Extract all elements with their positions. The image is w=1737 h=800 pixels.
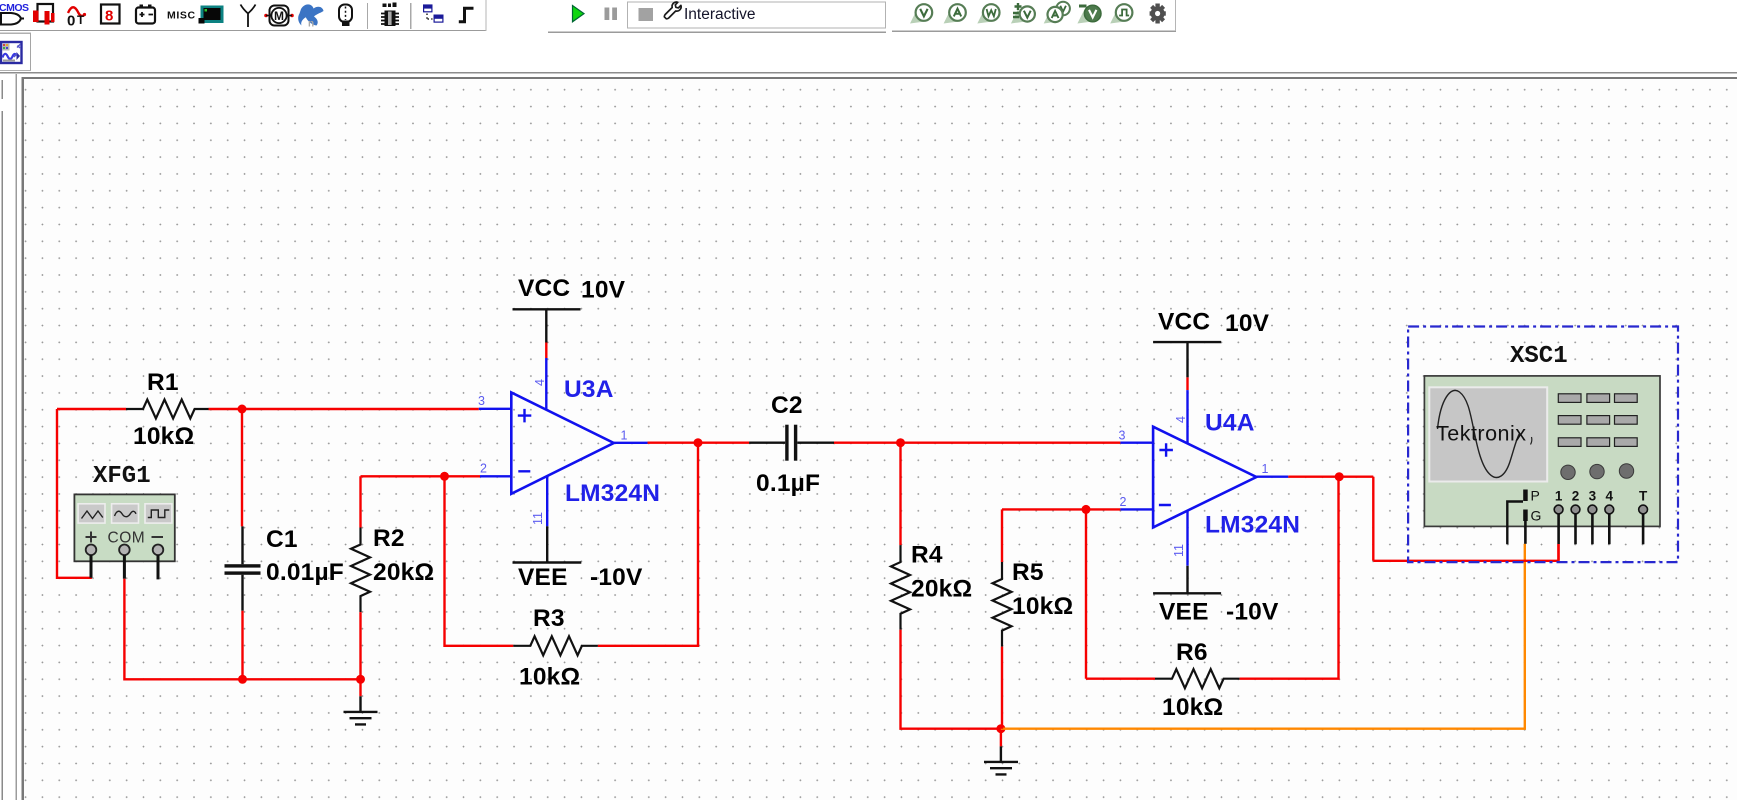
toolbar icon RF — [241, 5, 256, 28]
XSC1 G terminal bar — [1523, 510, 1528, 522]
toolbar icon indicator — [101, 5, 120, 24]
P probe hook — [1507, 502, 1523, 545]
svg-text:11: 11 — [531, 512, 545, 525]
junction node pin2/R6 — [1082, 505, 1091, 514]
svg-text:-10V: -10V — [1226, 599, 1279, 626]
resistor R4 — [891, 545, 910, 630]
resistor R5 — [993, 562, 1012, 647]
toolbar row2 borders — [0, 32, 31, 34]
svg-text:20kΩ: 20kΩ — [373, 559, 434, 586]
svg-text:VEE: VEE — [1159, 599, 1209, 626]
junction node U4A output — [1335, 472, 1344, 481]
toolbar icon transient — [459, 8, 474, 22]
wire R2 top to U3A pin 2 — [361, 476, 481, 527]
probes toolbar borders — [892, 30, 1176, 32]
svg-text:XSC1: XSC1 — [1510, 343, 1568, 370]
XFG1 sine wave button — [112, 504, 139, 523]
svg-text:1: 1 — [1555, 489, 1563, 504]
junction node C1 bottom — [238, 675, 247, 684]
svg-text:Interactive: Interactive — [684, 6, 756, 23]
toolbar icon hierarchy — [423, 4, 433, 12]
channel terminal stems — [1559, 514, 1644, 545]
wire R3 right leg — [598, 443, 698, 646]
resistor R2 — [351, 528, 370, 613]
junction node feedback/pin2 — [440, 472, 449, 481]
wire C1 bottom — [241, 611, 243, 680]
op-amp U3A pin 2 lead — [480, 475, 511, 477]
resistor R6 — [1155, 669, 1240, 688]
wrench icon — [664, 2, 681, 19]
orange wire to scope ground — [1001, 544, 1525, 729]
canvas frame — [22, 77, 1737, 79]
svg-text:R3: R3 — [533, 605, 565, 632]
XSC1 screen sine wave — [1438, 390, 1520, 477]
XSC1 screen — [1429, 387, 1547, 481]
probe +V — [1011, 10, 1026, 24]
wire XFG1 plus to R1 left — [57, 409, 126, 578]
toolbar separators — [367, 3, 369, 29]
svg-text:U4A: U4A — [1205, 410, 1255, 437]
svg-text:-10V: -10V — [590, 564, 643, 591]
toolbar icon power source — [136, 8, 155, 24]
oscilloscope XSC1 body — [1424, 376, 1660, 527]
svg-text:R5: R5 — [1012, 559, 1044, 586]
probe -V — [1077, 10, 1092, 24]
svg-text:C1: C1 — [266, 526, 298, 553]
wire R5 top — [1001, 509, 1003, 562]
op-amp U3A pin 3 lead — [479, 408, 512, 410]
op-amp U3A body — [511, 393, 614, 494]
toolbar row1 bottom border — [0, 30, 486, 32]
svg-text:Tektronix: Tektronix — [1436, 422, 1527, 446]
resistor R3 — [513, 636, 598, 655]
probe A — [944, 10, 959, 24]
channel 1 red stub — [1557, 544, 1559, 561]
wire U3A output to C2 — [648, 442, 750, 444]
channel number labels — [1555, 489, 1648, 504]
svg-text:3: 3 — [1119, 429, 1126, 443]
svg-text:4: 4 — [533, 379, 547, 386]
capacitor C1 — [241, 526, 243, 610]
svg-text:VCC: VCC — [1158, 309, 1210, 336]
wire C2 to U4A pin 3 — [834, 442, 1120, 444]
junction node U3A output — [694, 438, 703, 447]
svg-text:C2: C2 — [771, 392, 803, 419]
XSC1 P terminal bar — [1523, 490, 1528, 502]
svg-text:10kΩ: 10kΩ — [519, 664, 580, 691]
VEE rail U3A — [546, 476, 548, 526]
toolbar row2 grapher icon — [1, 42, 22, 63]
svg-text:1: 1 — [621, 429, 628, 443]
svg-text:10kΩ: 10kΩ — [1012, 593, 1073, 620]
XSC1 knobs — [1561, 464, 1634, 480]
wire C1 top — [241, 409, 243, 526]
toolbar icon analog — [68, 7, 84, 16]
wire feedback left leg — [445, 476, 514, 646]
stop button — [639, 8, 654, 21]
svg-text:R6: R6 — [1176, 639, 1208, 666]
XFG1 triangle wave button — [78, 504, 105, 523]
toolbar icon connector — [339, 5, 352, 23]
svg-text:2: 2 — [480, 462, 487, 476]
svg-text:8: 8 — [105, 8, 113, 25]
svg-text:11: 11 — [1172, 544, 1186, 557]
toolbar icon peripherals — [201, 6, 224, 24]
op-amp U3A output lead pin 1 — [614, 442, 648, 444]
G terminal stem — [1524, 521, 1527, 544]
pause button — [605, 8, 610, 21]
probe V — [910, 10, 925, 24]
wire R5 to U4A pin 2 — [1002, 508, 1120, 510]
svg-text:4: 4 — [1606, 489, 1614, 504]
XFG1 terminal stems — [91, 555, 158, 579]
svg-text:R1: R1 — [147, 369, 179, 396]
function generator XFG1 body — [74, 494, 174, 561]
svg-text:0.1µF: 0.1µF — [756, 470, 820, 497]
toolbar icon MCU — [383, 4, 387, 8]
wire R1 to U3A pin 3 — [209, 408, 479, 410]
svg-text:3: 3 — [478, 394, 485, 408]
svg-text:XFG1: XFG1 — [93, 463, 151, 490]
svg-text:R2: R2 — [373, 525, 405, 552]
wire ground rail C1 to R2 — [243, 678, 361, 680]
svg-text:0: 0 — [67, 13, 75, 30]
svg-text:0.01µF: 0.01µF — [266, 559, 344, 586]
wire R6 left leg — [1086, 509, 1155, 678]
probe settings gear — [1150, 4, 1166, 24]
XFG1 minus terminal label — [152, 536, 164, 538]
wire XFG1 COM to ground rail — [124, 579, 242, 680]
wire U4A output to scope channel 1 — [1288, 477, 1558, 561]
junction node R2 bottom — [356, 675, 365, 684]
wire R4 bottom — [901, 630, 1001, 729]
svg-text:n: n — [308, 19, 314, 30]
XFG1 square wave button — [145, 504, 172, 523]
svg-text:R4: R4 — [911, 542, 943, 569]
svg-text:2: 2 — [1120, 495, 1127, 509]
oscilloscope XSC1 selection box — [1408, 327, 1678, 563]
probe AV — [1044, 10, 1059, 24]
channel terminals — [1554, 505, 1647, 514]
resistor R1 — [126, 400, 209, 419]
probe digital — [1110, 10, 1125, 24]
svg-text:M: M — [274, 9, 284, 23]
svg-text:U3A: U3A — [564, 376, 614, 403]
wire R5 bottom — [1001, 647, 1003, 729]
svg-text:P: P — [1531, 488, 1540, 504]
wire R2 bottom — [359, 612, 361, 679]
svg-text:10kΩ: 10kΩ — [133, 423, 194, 450]
XSC1 buttons — [1558, 394, 1637, 447]
svg-text:T: T — [77, 13, 85, 27]
svg-text:LM324N: LM324N — [1205, 512, 1300, 539]
toolbar icon TTL — [38, 4, 54, 22]
toolbar icon NI component — [298, 4, 323, 25]
capacitor C2 — [749, 442, 834, 444]
svg-text:10V: 10V — [581, 277, 626, 304]
svg-text:T: T — [1639, 489, 1648, 504]
toolbar icon electromechanical — [264, 14, 268, 18]
ground GND1 — [359, 679, 361, 696]
XFG1 plus terminal label — [86, 532, 97, 543]
svg-text:MISC: MISC — [167, 10, 196, 22]
wire R6 right leg — [1240, 476, 1339, 678]
svg-text:G: G — [1531, 508, 1542, 524]
op-amp U4A pin 2 lead — [1120, 508, 1153, 510]
svg-text:VEE: VEE — [518, 564, 568, 591]
svg-text:20kΩ: 20kΩ — [911, 576, 972, 603]
op-amp U4A pin 3 lead — [1120, 442, 1153, 444]
svg-text:10V: 10V — [1225, 310, 1270, 337]
wire R4 top — [899, 443, 901, 545]
svg-text:10kΩ: 10kΩ — [1162, 694, 1223, 721]
junction node R1/C1 — [238, 405, 247, 414]
play button — [573, 6, 585, 22]
svg-text:3: 3 — [1589, 489, 1597, 504]
sim toolbar borders — [628, 2, 886, 28]
probe W — [977, 10, 992, 24]
VCC rail U4A — [1153, 342, 1221, 377]
svg-text:LM324N: LM324N — [565, 480, 660, 507]
svg-text:VCC: VCC — [518, 275, 570, 302]
svg-text:4: 4 — [1174, 416, 1188, 423]
svg-text:2: 2 — [1572, 489, 1580, 504]
ground GND2 — [1000, 729, 1002, 747]
VCC rail U3A — [513, 309, 581, 342]
svg-text:1: 1 — [1262, 462, 1269, 476]
op-amp U4A output lead pin 1 — [1256, 476, 1288, 478]
op-amp U4A body — [1153, 427, 1256, 528]
junction node ground rail — [996, 724, 1005, 733]
VEE rail U4A — [1186, 511, 1188, 566]
junction node R4 top — [896, 438, 905, 447]
XFG1 terminals — [86, 545, 164, 556]
